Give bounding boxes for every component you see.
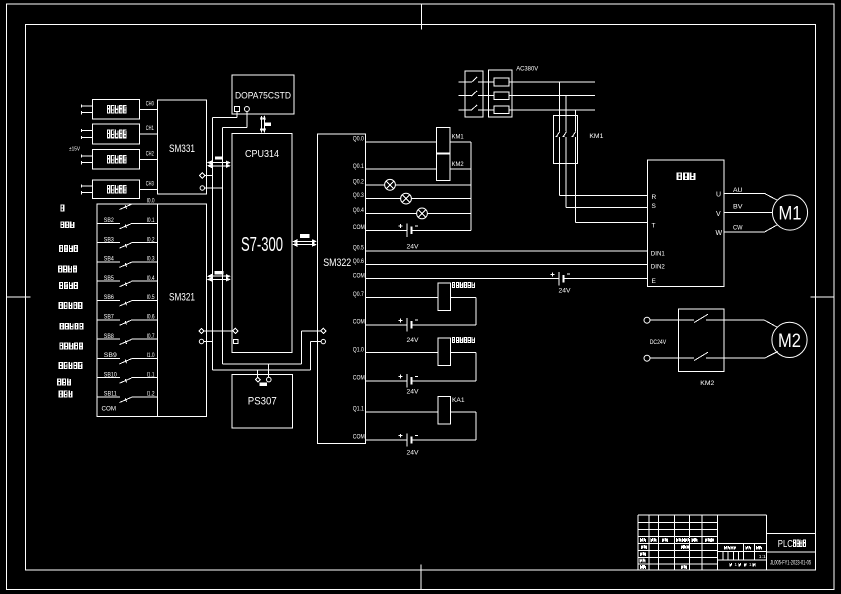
wire terminal1 to KM2: [650, 319, 678, 321]
wire to inverter terminal 1: [559, 195, 647, 197]
analog input module SM331: [158, 100, 207, 194]
wire KM2 to M2 bottom: [724, 357, 765, 359]
motor M2: [772, 322, 807, 357]
svg-text:COM: COM: [353, 225, 365, 231]
KM2 contact blade bottom: [678, 357, 694, 359]
svg-text:CH1: CH1: [146, 126, 154, 132]
switch SB6 row wire I0.5: [97, 300, 120, 302]
title block right column: [767, 532, 816, 534]
svg-text:KM1: KM1: [589, 133, 603, 140]
switch blade: [120, 359, 132, 364]
sensor input stubs: [82, 185, 93, 187]
svg-text:1:1: 1:1: [759, 554, 767, 559]
fuse FU2: [494, 92, 509, 100]
svg-text:KM2: KM2: [700, 380, 714, 387]
svg-text:I0.4: I0.4: [147, 276, 156, 282]
function label row 5: [59, 282, 60, 289]
wire drop to PS307 diamond: [256, 370, 258, 377]
svg-text:DIN2: DIN2: [651, 265, 666, 271]
svg-text:BV: BV: [733, 205, 743, 211]
function label row 9: [59, 362, 60, 369]
inverter 变频器: [647, 160, 724, 287]
wire line C to SM322 diamond: [222, 363, 301, 365]
svg-text:Q1.0: Q1.0: [353, 347, 365, 353]
bus link arrow SM321-CPU: [208, 275, 230, 277]
battery 24V on COM: [365, 380, 407, 382]
wire sensor3 to SM331: [140, 158, 158, 160]
contactor KM2 contacts box: [678, 309, 724, 372]
svg-text:SM331: SM331: [169, 143, 195, 155]
SM322 bus connector diamond: [321, 328, 326, 333]
svg-text:SB4: SB4: [104, 257, 115, 263]
centering tick bottom: [420, 564, 422, 589]
switch SB1 row wire I0.0: [97, 203, 120, 205]
KM1 contact blade 1: [556, 132, 559, 137]
function label row 10: [57, 379, 58, 386]
svg-text:S: S: [652, 203, 657, 210]
title block table: [637, 515, 639, 570]
PLC CPU314 S7-300: [232, 133, 292, 352]
wire V to M1: [724, 212, 773, 214]
svg-text:I0.2: I0.2: [147, 237, 156, 243]
svg-text:24V: 24V: [407, 389, 419, 395]
svg-text:CPU314: CPU314: [245, 149, 279, 160]
wire Q0.6 to DIN2: [365, 263, 647, 265]
svg-text:±15V: ±15V: [69, 146, 80, 152]
svg-text:I1.2: I1.2: [147, 392, 156, 398]
switch SB7 row wire I0.6: [97, 319, 120, 321]
title col labels: [641, 545, 644, 549]
svg-text:SB5: SB5: [104, 276, 115, 282]
svg-text:COM: COM: [353, 319, 365, 325]
svg-text:COM: COM: [353, 376, 365, 382]
svg-text:CW: CW: [733, 226, 743, 232]
svg-text:SB3: SB3: [104, 237, 115, 243]
switch SB4 row wire I0.3: [97, 261, 120, 263]
svg-text:SB10: SB10: [104, 372, 118, 378]
sensor box 4 (transducer): [93, 180, 140, 199]
function label row 1: [60, 205, 61, 212]
svg-text:I0.6: I0.6: [147, 315, 156, 321]
svg-text:I0.3: I0.3: [147, 257, 156, 263]
svg-text:Q0.0: Q0.0: [353, 136, 365, 142]
solenoid valve coil YV1: [365, 297, 438, 299]
SM331 bus connector circle: [200, 186, 204, 190]
fuse FU1: [494, 78, 509, 86]
svg-text:JL005-FY1-2023-01-05: JL005-FY1-2023-01-05: [770, 561, 811, 567]
wire W to M1: [724, 231, 765, 233]
wire sensor4 to SM331: [140, 188, 158, 190]
svg-text:S7-300: S7-300: [241, 234, 283, 256]
sensor input stubs: [82, 105, 93, 107]
wire COM to E with battery 24V: [365, 278, 559, 280]
svg-text:24V: 24V: [559, 289, 571, 295]
svg-text:24V: 24V: [407, 338, 419, 344]
svg-text:Q0.3: Q0.3: [353, 193, 365, 199]
svg-text:KM2: KM2: [452, 161, 464, 168]
switch blade: [120, 224, 132, 229]
switch blade phase 1: [471, 77, 477, 82]
svg-text:I0.1: I0.1: [147, 218, 156, 224]
svg-text:M1: M1: [779, 204, 802, 225]
svg-text:I0.7: I0.7: [147, 334, 156, 340]
phase wire 2: [459, 95, 472, 97]
svg-text:KA1: KA1: [452, 398, 465, 404]
wire SM331 diamond to bus A: [205, 175, 213, 177]
SM331 bus connector diamond: [200, 173, 205, 178]
operator panel DOPA75CSTD: [232, 75, 294, 114]
svg-text:SB11: SB11: [104, 392, 118, 398]
battery 24V on COM: [365, 439, 407, 441]
solenoid valve coil YV2: [365, 352, 438, 354]
CPU connector diamond: [233, 328, 238, 333]
switch SB10 row wire I1.1: [97, 377, 120, 379]
wire sensor1 to SM331: [140, 108, 158, 110]
fuse box FU: [489, 70, 512, 117]
wire drop to PS307 circle: [268, 364, 270, 377]
wire line D to SM322 circle: [213, 369, 311, 371]
main contactor KM1 contacts box: [554, 116, 578, 164]
svg-text:CH2: CH2: [146, 151, 154, 157]
svg-text:SB6: SB6: [104, 295, 115, 301]
switch blade: [120, 397, 132, 402]
wire Q0.5 to DIN1: [365, 250, 647, 252]
switch SB8 row wire I0.7: [97, 338, 120, 340]
contactor coil KM1: [365, 141, 436, 143]
centering tick top: [420, 4, 422, 30]
wire drop phase 3 to KM1: [574, 110, 576, 132]
svg-text:E: E: [652, 278, 657, 285]
bus link arrow CPU-SM322: [293, 240, 316, 242]
sensor input stubs: [82, 155, 93, 157]
switch blade: [120, 204, 132, 209]
switch blade: [120, 320, 132, 325]
indicator lamp HL1: [365, 184, 384, 186]
function label row 3: [59, 245, 60, 252]
fuse FU3: [494, 106, 509, 114]
svg-text:24V: 24V: [407, 244, 419, 250]
phase wire 3: [459, 109, 472, 111]
battery 24V on COM: [365, 324, 407, 326]
wire to inverter terminal 3: [575, 222, 647, 224]
svg-text:U: U: [716, 192, 721, 199]
bus link arrow SM331-CPU: [208, 162, 230, 164]
switch blade: [120, 378, 132, 383]
KM2 contact blade top: [678, 319, 694, 321]
function label row 6: [59, 302, 60, 309]
sensor box 1 (transducer): [93, 100, 140, 120]
wire SM331 circle to bus B: [205, 187, 223, 189]
PS307 connector circle: [267, 377, 272, 382]
CPU connector square: [233, 339, 238, 343]
svg-text:M2: M2: [778, 331, 801, 352]
wire drop phase 2 to KM1: [565, 96, 567, 132]
svg-text:Q1.1: Q1.1: [353, 406, 365, 412]
wire to inverter terminal 2: [566, 207, 647, 209]
KM1 contact blade 3: [572, 132, 575, 137]
terminal circle 2: [644, 355, 650, 361]
svg-text:KM1: KM1: [452, 133, 464, 140]
svg-text:Q0.1: Q0.1: [353, 164, 365, 170]
wire drop phase 1 to KM1: [558, 82, 560, 132]
svg-text:SB7: SB7: [104, 315, 115, 321]
wire terminal2 to KM2: [650, 357, 678, 359]
svg-text:AU: AU: [733, 188, 743, 194]
indicator lamp HL3: [365, 212, 416, 214]
digital output module SM322: [317, 134, 365, 444]
svg-text:PLC: PLC: [778, 539, 793, 550]
panel connector circle: [244, 107, 249, 112]
power supply PS307: [232, 374, 293, 428]
title block middle section: [718, 514, 767, 516]
panel connector square: [234, 107, 239, 112]
PS307 connector diamond: [255, 377, 260, 382]
wire sensor2 to SM331: [140, 133, 158, 135]
svg-text:V: V: [716, 211, 721, 218]
contactor coil KM2: [365, 168, 436, 170]
svg-text:Q0.7: Q0.7: [353, 292, 365, 298]
switch SB5 row wire I0.4: [97, 280, 120, 282]
relay coil KA1: [365, 411, 438, 413]
PS307 connector block: [260, 383, 267, 387]
wire U to M1: [724, 192, 765, 194]
svg-text:Q0.5: Q0.5: [353, 246, 365, 252]
phase wire 1: [459, 81, 472, 83]
sensor box 2 (transducer): [93, 124, 140, 144]
svg-text:SM321: SM321: [169, 292, 195, 304]
MPI link arrow panel-CPU: [261, 116, 263, 132]
svg-text:AC380V: AC380V: [516, 65, 539, 72]
function label row 8: [59, 343, 60, 350]
switch blade: [120, 243, 132, 248]
svg-text:I0.0: I0.0: [147, 199, 156, 205]
svg-text:R: R: [652, 194, 657, 201]
switch blade: [120, 339, 132, 344]
label stage mark / weight / scale: [724, 546, 727, 550]
svg-text:W: W: [716, 230, 723, 237]
svg-text:SB2: SB2: [104, 218, 115, 224]
svg-text:COM: COM: [102, 407, 117, 413]
svg-text:CH3: CH3: [146, 181, 154, 187]
svg-text:I0.5: I0.5: [147, 295, 156, 301]
title row labels: [640, 538, 643, 542]
svg-text:SB8: SB8: [104, 334, 115, 340]
svg-text:DC24V: DC24V: [650, 340, 667, 346]
svg-text:I1.0: I1.0: [147, 353, 156, 359]
svg-text:SM322: SM322: [323, 257, 351, 269]
wire bus B from panel circle: [246, 112, 248, 128]
SM321 bus connector diamond: [199, 328, 204, 333]
svg-text:T: T: [652, 222, 656, 229]
switch SB11 row wire I1.2: [97, 396, 120, 398]
function label row 11: [59, 391, 60, 398]
SM322 bus connector circle: [321, 339, 325, 343]
svg-text:Q0.2: Q0.2: [353, 179, 365, 185]
svg-text:SB9: SB9: [104, 353, 118, 359]
svg-text:PS307: PS307: [248, 396, 277, 408]
centering tick right: [811, 296, 834, 298]
SM321 bus connector circle: [199, 339, 203, 343]
function label row 4: [58, 266, 59, 273]
switch terminal box: [97, 204, 158, 416]
wire bus A from panel square: [236, 112, 238, 118]
switch blade: [120, 262, 132, 267]
switch blade phase 2: [471, 91, 477, 96]
wire SM321 diamond to CPU: [204, 330, 233, 332]
switch blade: [120, 282, 132, 287]
wire KM2 to M2 top: [724, 319, 765, 321]
switch blade phase 3: [471, 105, 477, 110]
svg-text:COM: COM: [353, 435, 365, 441]
function label row 7: [60, 323, 61, 330]
wire output bus right: [470, 142, 472, 231]
svg-text:DOPA75CSTD: DOPA75CSTD: [235, 91, 291, 102]
svg-text:Q0.4: Q0.4: [353, 208, 365, 214]
digital input module SM321: [158, 204, 207, 416]
switch SB2 row wire I0.1: [97, 222, 120, 224]
svg-text:24V: 24V: [407, 450, 419, 456]
label sheet count: [729, 563, 732, 567]
centering tick left: [7, 296, 31, 298]
sensor input stubs: [82, 130, 93, 132]
svg-text:I1.1: I1.1: [147, 372, 156, 378]
svg-text:DIN1: DIN1: [651, 252, 666, 258]
svg-text:COM: COM: [353, 273, 365, 279]
switch SB3 row wire I0.2: [97, 242, 120, 244]
svg-text:CH0: CH0: [146, 101, 154, 107]
KM1 contact blade 2: [563, 132, 566, 137]
terminal circle 1: [644, 317, 650, 323]
battery 24V on COM: [365, 229, 407, 231]
switch blade: [120, 301, 132, 306]
switch SB9 row wire I1.0: [97, 357, 120, 359]
motor M1: [772, 195, 807, 230]
function label row 2: [60, 221, 61, 228]
svg-text:Q0.6: Q0.6: [353, 259, 365, 265]
wire SM321 circle to bus A: [204, 341, 213, 343]
disconnect switch QS: [465, 71, 483, 117]
indicator lamp HL2: [365, 198, 400, 200]
sensor box 3 (transducer): [93, 150, 140, 170]
